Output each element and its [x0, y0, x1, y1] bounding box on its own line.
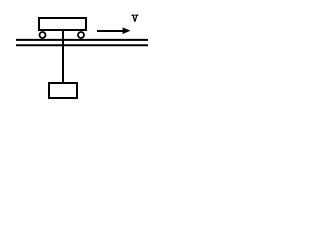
cart right wheel	[78, 32, 84, 38]
cart body	[39, 18, 86, 30]
velocity arrow shaft	[97, 30, 124, 32]
table upper line	[16, 39, 148, 41]
background	[0, 0, 154, 112]
velocity arrowhead	[123, 27, 131, 34]
cart left wheel	[40, 32, 46, 38]
table lower line	[16, 44, 148, 46]
string (vertical line from cart to hanging weight)	[62, 26, 64, 83]
hanging weight	[49, 83, 77, 98]
label v	[132, 15, 139, 22]
